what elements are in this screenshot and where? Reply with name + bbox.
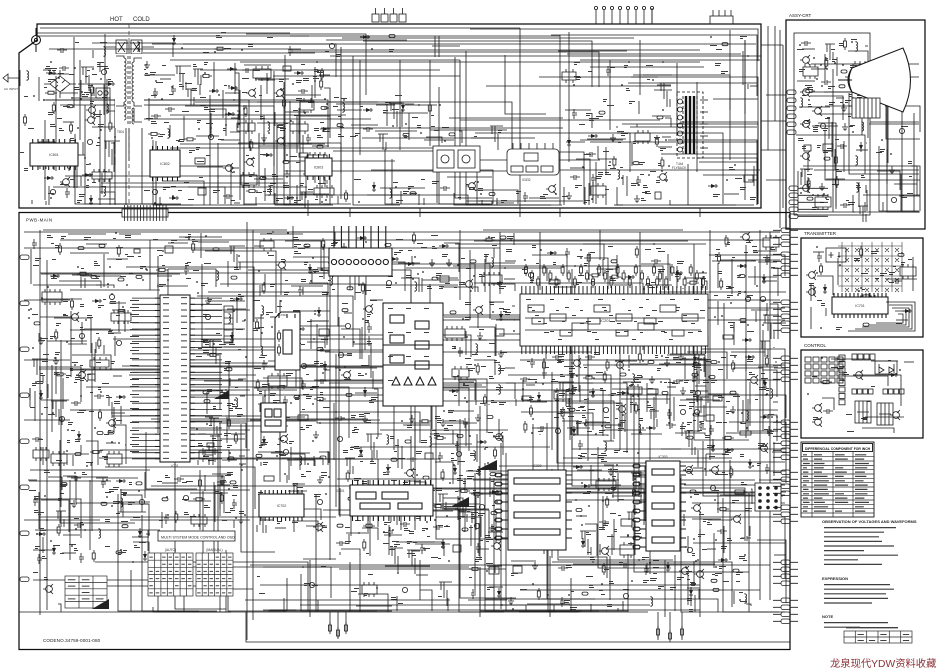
wire: [246, 222, 248, 640]
header CN63: [345, 458, 355, 474]
wire: [306, 525, 327, 527]
connector pad CN59: [320, 456, 326, 459]
wire: [293, 256, 334, 258]
resistor R31: [98, 409, 101, 421]
ground: [362, 415, 368, 422]
label: [499, 402, 506, 405]
wire: [608, 394, 618, 396]
label: [34, 510, 38, 513]
wire: [699, 511, 701, 560]
label: [104, 66, 109, 69]
header CN65: [258, 517, 268, 533]
transistor Q24: [491, 541, 501, 551]
label: [197, 120, 201, 123]
label: [297, 343, 301, 344]
wire: [126, 495, 142, 512]
wire: [562, 421, 577, 435]
connector pad CN35: [97, 432, 103, 435]
wire: [109, 302, 126, 304]
ic U21: [42, 289, 62, 305]
label: [98, 124, 104, 127]
label: [74, 382, 77, 383]
wire: [570, 167, 585, 169]
wire: [103, 345, 105, 354]
svg-text:LA7910: LA7910: [277, 313, 288, 317]
capacitor C30: [109, 294, 114, 299]
label: [285, 280, 288, 281]
label: [242, 78, 249, 79]
label: [86, 185, 89, 188]
label: [303, 78, 309, 81]
label: [104, 457, 108, 460]
label: [165, 475, 170, 478]
label: [431, 235, 438, 236]
wire: [122, 503, 148, 505]
label: [80, 365, 83, 366]
label: [259, 327, 264, 328]
label: [94, 263, 100, 266]
label: [35, 258, 41, 261]
node: [493, 435, 495, 437]
connector pad CN68: [470, 260, 476, 263]
capacitor C60: [345, 323, 350, 328]
label: [293, 237, 299, 240]
label: [633, 141, 636, 144]
label: [501, 200, 507, 203]
label: [286, 373, 293, 376]
label: [53, 545, 60, 546]
diode D35: [143, 551, 147, 561]
wire: [617, 133, 630, 172]
label: [235, 408, 242, 409]
wire: [41, 500, 69, 532]
wire: [597, 146, 599, 159]
label: [505, 312, 511, 315]
wire: [696, 396, 706, 398]
transistor Q14: [106, 418, 116, 428]
wire: [566, 402, 611, 404]
wire: [471, 137, 495, 139]
wire: [323, 244, 325, 279]
wire: [217, 484, 230, 486]
label: [259, 445, 263, 448]
capacitor C74: [479, 504, 484, 509]
label: [259, 95, 262, 96]
wire: [466, 470, 477, 472]
node: [33, 95, 35, 97]
transistor Q12: [69, 312, 79, 322]
wire: [426, 137, 442, 143]
label: [224, 48, 231, 49]
wire: [561, 413, 593, 430]
capacitor C47: [183, 495, 188, 500]
label: [306, 396, 312, 399]
capacitor C81: [530, 358, 535, 368]
wire: [475, 190, 518, 204]
capacitor C27: [288, 46, 293, 56]
node: [94, 117, 96, 119]
wire: [86, 441, 98, 465]
label: [383, 472, 388, 475]
resistor R65: [603, 371, 606, 383]
resistor R47: [314, 397, 326, 400]
wire: [288, 143, 325, 145]
transistor Q6: [274, 88, 284, 98]
capacitor C62: [338, 352, 343, 357]
connector pad CN29: [91, 275, 97, 278]
node: [283, 415, 285, 417]
label: [48, 193, 54, 194]
transistor Q17: [363, 304, 373, 314]
transistor Q22: [493, 432, 503, 442]
wire: [440, 507, 458, 509]
label: [620, 167, 623, 168]
label: [52, 259, 56, 260]
wire: [399, 60, 401, 150]
ground: [317, 476, 323, 483]
resistor R33: [207, 353, 219, 356]
ic U43: [378, 487, 397, 501]
label: [255, 111, 259, 112]
label: [356, 251, 361, 254]
wire: [630, 363, 648, 365]
label: [55, 352, 60, 355]
node: [109, 266, 111, 268]
label: [710, 45, 717, 46]
resistor R28: [55, 329, 58, 341]
label: [320, 392, 323, 395]
wire: [260, 85, 262, 120]
wire: [55, 366, 57, 394]
diode D32: [36, 532, 46, 536]
label: [321, 339, 328, 340]
wire: [263, 413, 275, 415]
wire: [59, 281, 101, 288]
label: [213, 190, 220, 193]
diode D51: [499, 311, 503, 321]
label: [308, 102, 314, 103]
label: [716, 49, 722, 50]
wire: [266, 73, 268, 94]
wire: [488, 531, 503, 533]
transistor Q4: [223, 163, 233, 173]
node: [405, 123, 407, 125]
label: [351, 271, 356, 272]
label: [605, 172, 611, 175]
wire: [658, 146, 672, 148]
wire: [258, 451, 284, 453]
node: [232, 167, 234, 169]
label: [111, 361, 115, 364]
diode D55: [453, 465, 457, 475]
wire: [530, 401, 547, 403]
capacitor C85: [542, 369, 547, 379]
inductor L19: [261, 345, 263, 356]
node: [298, 395, 300, 397]
label: [190, 516, 196, 517]
label: [640, 174, 644, 175]
wire: [149, 240, 151, 290]
wire: [46, 260, 48, 610]
wire: [584, 403, 622, 429]
node: [126, 284, 128, 286]
node: [43, 99, 45, 101]
diode D60: [537, 392, 541, 402]
wire: [469, 250, 471, 320]
label: [301, 344, 305, 345]
label: [145, 73, 150, 76]
wire: [580, 139, 623, 141]
wire: [368, 355, 370, 366]
wire: [260, 314, 262, 345]
label: [444, 526, 450, 527]
wire: [275, 527, 286, 529]
connector pad CN28: [99, 244, 105, 247]
label: [277, 419, 282, 420]
label: [20, 152, 24, 153]
label: [248, 44, 253, 47]
wire: [111, 425, 126, 464]
label: [74, 548, 78, 551]
label: [359, 414, 364, 417]
wire: [214, 485, 216, 522]
component U4: [198, 188, 206, 195]
label: [94, 261, 97, 262]
wire: [170, 59, 460, 61]
label: [163, 187, 170, 190]
node: [233, 171, 235, 173]
label: [75, 377, 80, 380]
connector pad CN85: [693, 363, 699, 366]
label: [51, 243, 54, 244]
label: [233, 485, 238, 488]
wire: [639, 40, 641, 95]
wire: [226, 417, 228, 443]
label: [618, 142, 621, 143]
label: [108, 430, 113, 433]
wire: [365, 264, 377, 266]
label: [84, 92, 87, 93]
wire: [504, 278, 515, 280]
label: [300, 427, 305, 430]
label: [280, 455, 286, 456]
label: [586, 113, 592, 116]
wire: [430, 129, 507, 131]
wire: [588, 424, 621, 426]
wire: [390, 488, 392, 522]
svg-text:IC701: IC701: [855, 304, 865, 308]
node: [384, 513, 386, 515]
label: [144, 190, 150, 191]
wire: [307, 341, 325, 343]
label: [86, 92, 90, 95]
label: [352, 430, 358, 433]
node: [464, 397, 466, 399]
inductor L23: [476, 343, 478, 354]
node: [245, 356, 247, 358]
label: [626, 88, 630, 91]
node: [228, 488, 230, 490]
node: [172, 195, 174, 197]
wire: [271, 452, 310, 454]
label: [468, 368, 475, 371]
wire: [95, 342, 97, 353]
wire: [256, 525, 258, 532]
label: [154, 95, 157, 96]
node: [161, 98, 163, 100]
label: [28, 128, 34, 129]
label: [227, 472, 233, 475]
wire: [371, 450, 373, 462]
wire: [443, 339, 520, 341]
header CN15: [378, 134, 388, 150]
connector pad CN58: [256, 454, 262, 457]
capacitor C63: [335, 416, 345, 421]
label: [267, 233, 272, 234]
wire: [459, 60, 461, 200]
wire: [458, 370, 460, 406]
svg-text:IC801: IC801: [49, 153, 59, 157]
resistor R49: [284, 494, 296, 497]
label: [295, 499, 300, 500]
wire: [73, 162, 75, 188]
capacitor C48: [232, 499, 237, 509]
label: [318, 183, 325, 184]
transistor Q9: [466, 181, 476, 191]
wire: [210, 120, 212, 133]
wire: [360, 464, 362, 466]
label: [466, 268, 471, 269]
label: [206, 155, 210, 156]
label: [476, 471, 481, 474]
wire: [72, 455, 74, 466]
inductor L18: [283, 318, 285, 329]
wire: [335, 367, 377, 369]
connector pad CN30: [118, 278, 124, 281]
label: [370, 300, 377, 301]
label: [35, 546, 40, 549]
node: [487, 462, 489, 464]
label: [596, 116, 603, 119]
wire: [222, 90, 224, 118]
resistor R16: [250, 139, 253, 151]
diode D52: [449, 389, 459, 393]
label: [39, 550, 45, 551]
node: [276, 455, 278, 457]
connector pad CN77: [402, 491, 408, 494]
wire: [60, 239, 770, 241]
wire: [30, 469, 150, 471]
label: [264, 421, 271, 424]
wire: [107, 286, 109, 288]
diode D36: [357, 236, 367, 240]
label: [267, 37, 273, 38]
svg-text:IC702: IC702: [277, 504, 287, 508]
header CN78: [438, 494, 448, 510]
label: [436, 488, 442, 491]
label: [491, 481, 494, 482]
wire: [666, 394, 668, 404]
wire: [41, 399, 69, 401]
wire: [479, 570, 481, 617]
connector pad CN54: [317, 348, 323, 351]
wire: [659, 363, 701, 365]
wire: [496, 319, 515, 321]
inductor L13: [236, 397, 238, 408]
node: [392, 529, 394, 531]
wire: [120, 489, 250, 491]
label: [160, 134, 165, 135]
label: [304, 262, 308, 265]
wire: [652, 115, 671, 117]
node: [258, 270, 260, 272]
connector pad CN32: [34, 322, 40, 325]
label: [88, 85, 93, 88]
connector pad CN23: [599, 111, 605, 114]
wire: [769, 232, 771, 600]
wire: [286, 475, 288, 483]
label: [221, 480, 226, 483]
label: [645, 191, 651, 194]
label: [302, 409, 305, 410]
wire: [59, 453, 89, 455]
label: [422, 528, 428, 531]
wire: [372, 371, 374, 389]
label: [499, 286, 506, 289]
node: [312, 403, 314, 405]
capacitor C83: [585, 355, 595, 360]
inductor L9: [618, 169, 620, 180]
resistor R2: [34, 153, 37, 165]
wire: [299, 340, 301, 470]
inductor L2: [107, 103, 109, 114]
connector pad CN2: [67, 105, 73, 108]
label: [385, 102, 391, 105]
label: [239, 511, 244, 514]
label: [423, 548, 430, 549]
wire: [636, 124, 638, 127]
label: [417, 243, 423, 244]
wire: [400, 191, 402, 204]
wire: [106, 442, 116, 444]
wire: [239, 90, 241, 200]
wire: [484, 259, 486, 292]
label: [396, 200, 403, 203]
wire: [113, 407, 115, 432]
label: [69, 544, 76, 545]
wire: [67, 476, 108, 478]
wire: [224, 346, 246, 348]
wire: [496, 198, 498, 205]
connector pad CN79: [384, 509, 390, 512]
ic U39: [445, 326, 465, 341]
label: [204, 505, 210, 508]
label: [260, 116, 265, 119]
label: [114, 401, 120, 404]
label: [457, 478, 463, 481]
resistor R17: [246, 190, 258, 193]
wire: [35, 529, 160, 531]
label: [333, 106, 338, 107]
capacitor C28: [329, 43, 334, 48]
wire: [282, 458, 323, 465]
power board outline PWB-POWER: [19, 24, 761, 208]
wire: [47, 384, 49, 398]
diode D23: [360, 35, 370, 39]
wire: [38, 492, 40, 529]
diode D29: [233, 297, 243, 301]
label: [68, 422, 73, 425]
